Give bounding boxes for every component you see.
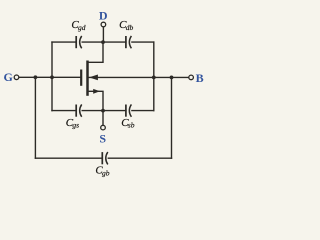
value label C_sb [121, 117, 135, 130]
svg-text:gs: gs [72, 121, 79, 130]
svg-text:S: S [99, 131, 106, 145]
wire top row left segment [52, 41, 76, 43]
value label C_db [119, 19, 133, 32]
junction dot body inner [152, 76, 156, 80]
wire inner right vertical [153, 42, 155, 111]
wire top row middle segment [82, 41, 126, 43]
svg-text:G: G [4, 70, 13, 84]
capacitor C_gd [76, 36, 82, 48]
wire drain lead [89, 42, 103, 62]
wire bottom capacitor row middle segment [82, 110, 126, 112]
junction dot drain top row [101, 40, 105, 44]
wire outer right vertical [171, 77, 173, 158]
wire outer bottom row left segment [35, 157, 102, 159]
wire body lead to B [89, 76, 189, 78]
svg-text:gd: gd [78, 23, 86, 32]
transistor M1 gate bar [80, 70, 82, 86]
transistor M1 source arrowhead [93, 89, 100, 94]
svg-text:B: B [196, 71, 204, 85]
junction dot body outer [170, 76, 174, 80]
svg-text:sb: sb [128, 121, 135, 130]
junction dot gate outer [34, 75, 38, 79]
transistor M1 body arrowhead [89, 75, 98, 81]
capacitor C_sb [126, 104, 131, 116]
svg-text:D: D [99, 8, 108, 22]
wire inner left vertical [51, 42, 53, 111]
capacitor C_gb [102, 152, 108, 164]
value label C_gd [71, 19, 85, 32]
wire bottom capacitor row left segment [52, 110, 76, 112]
transistor M1 channel bar [86, 61, 89, 96]
terminal circle G [14, 75, 19, 80]
wire outer left vertical [34, 77, 36, 158]
junction dot gate inner [50, 75, 54, 79]
wire bottom capacitor row right segment [132, 110, 154, 112]
terminal circle D [101, 22, 106, 27]
wire outer bottom row right segment [108, 157, 171, 159]
terminal circle B [189, 75, 194, 80]
wire source lead down to S [89, 91, 103, 125]
junction dot source bottom row [101, 109, 105, 113]
wire top row right segment [132, 41, 154, 43]
value label C_gb [95, 164, 109, 177]
capacitor C_gs [76, 104, 82, 116]
wire D terminal stem [102, 27, 104, 42]
terminal circle S [101, 125, 106, 130]
svg-text:gb: gb [102, 169, 110, 178]
value label C_gs [66, 117, 79, 130]
capacitor C_db [126, 36, 131, 48]
wire gate lead from G [19, 76, 80, 78]
svg-text:db: db [126, 23, 134, 32]
